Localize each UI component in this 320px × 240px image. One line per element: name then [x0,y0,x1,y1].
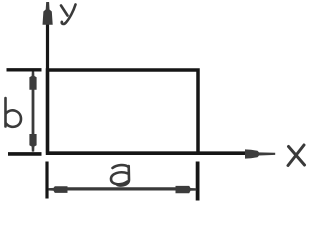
b arrow down [29,134,36,152]
dim extension tick bottom-left (b lower) [8,152,42,156]
label a [111,165,129,185]
a arrow left [48,186,67,193]
b arrow up [29,72,36,90]
y-axis [46,9,49,153]
label b [6,98,22,127]
label y [61,5,76,24]
label x [288,145,305,166]
x-axis [46,151,252,155]
x-axis arrowhead [245,149,275,158]
a dim extension tick right [196,162,200,201]
a dimension line [55,187,190,190]
b dimension line [32,80,35,143]
y-axis arrowhead [43,2,53,25]
a arrow right [176,186,197,193]
a dim extension tick left [45,162,48,199]
dim extension tick top-left (b upper) [7,68,42,71]
rectangle cross-section outline [48,70,199,153]
